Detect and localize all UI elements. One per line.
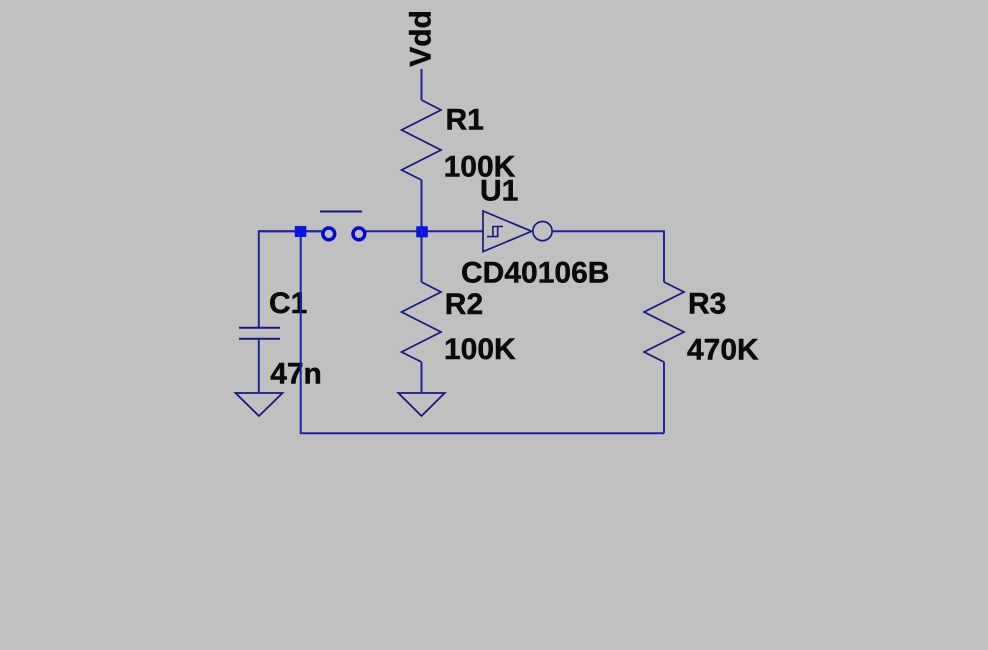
- wire node A to R2: [421, 231, 423, 282]
- capacitor C1: [239, 328, 280, 339]
- resistor R2: [402, 282, 442, 362]
- ground (R2): [398, 393, 444, 416]
- svg-text:47n: 47n: [270, 358, 322, 391]
- node B junction (RC node): [295, 226, 307, 237]
- wire node B to C1: [259, 231, 322, 327]
- svg-text:Vdd: Vdd: [405, 10, 438, 67]
- power label Vdd: [405, 10, 438, 67]
- wire U1 output to R3: [552, 231, 664, 282]
- value 100K (R2): [444, 333, 516, 366]
- ground (C1): [236, 393, 283, 416]
- svg-text:100K: 100K: [444, 333, 516, 366]
- output bubble: [533, 222, 552, 241]
- node A junction (gate input): [416, 226, 428, 237]
- svg-text:470K: 470K: [687, 334, 759, 367]
- resistor R1: [402, 100, 442, 180]
- jumper pin 2: [353, 228, 365, 240]
- value 470K: [687, 334, 759, 367]
- label R2: [445, 288, 483, 321]
- label R3: [688, 288, 726, 321]
- label R1: [446, 104, 484, 137]
- wire R2 to ground: [421, 362, 423, 393]
- wire bottom feedback to node B: [301, 231, 664, 433]
- inverter U1 triangle: [483, 211, 532, 252]
- label U1: [480, 175, 518, 208]
- wire jumper pin 2 to U1 input: [366, 230, 483, 232]
- wire R3 to bottom feedback: [663, 362, 665, 433]
- label C1: [269, 287, 307, 320]
- wire R1 to node A: [421, 180, 423, 231]
- part number CD40106B: [461, 257, 609, 290]
- wire C1 to ground: [258, 339, 260, 393]
- value 100K (R1): [444, 151, 516, 184]
- jumper bar: [320, 211, 362, 213]
- hysteresis symbol: [487, 227, 503, 237]
- svg-text:R3: R3: [688, 288, 726, 321]
- resistor R3: [644, 282, 684, 362]
- wire node B to jumper pin 1: [259, 230, 322, 232]
- svg-text:R1: R1: [446, 104, 484, 137]
- wire Vdd to R1: [421, 69, 423, 100]
- value 47n: [270, 358, 322, 391]
- svg-text:R2: R2: [445, 288, 483, 321]
- svg-text:CD40106B: CD40106B: [461, 257, 609, 290]
- svg-text:U1: U1: [480, 175, 518, 208]
- jumper pin 1: [323, 228, 335, 240]
